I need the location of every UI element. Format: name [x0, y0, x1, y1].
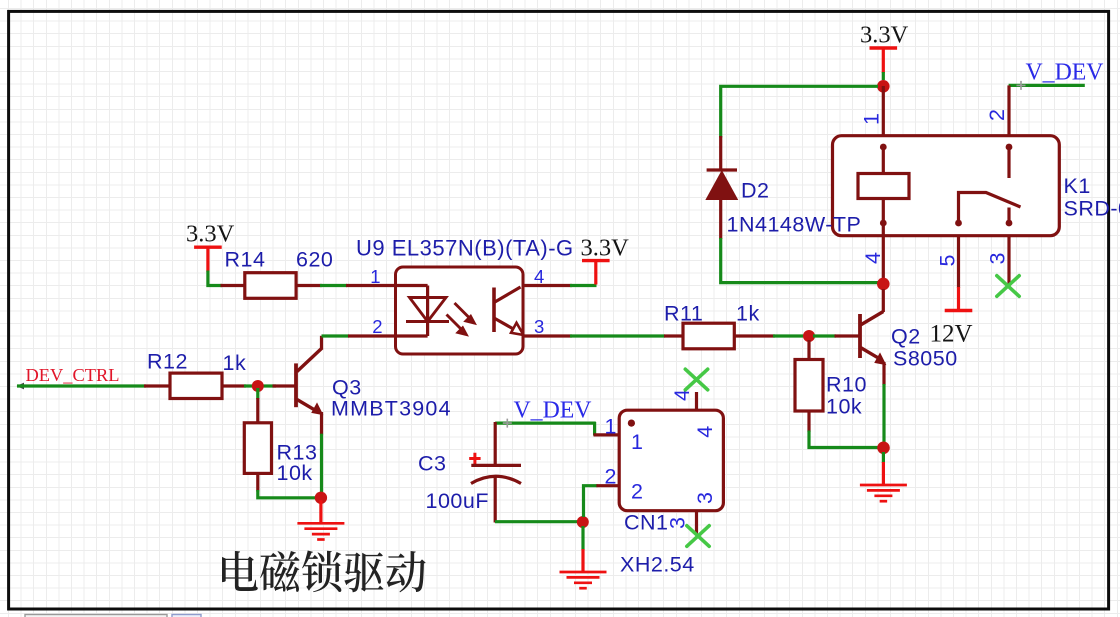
svg-text:2: 2 — [631, 480, 643, 504]
diode D2 1N4148W-TP — [707, 136, 737, 239]
no-connect X CN1 pin3 — [687, 526, 709, 547]
char 锁 — [302, 550, 341, 592]
wire relay pin3 stub — [1007, 236, 1010, 288]
svg-text:1k: 1k — [223, 351, 247, 375]
svg-text:1: 1 — [370, 266, 381, 287]
svg-text:3.3V: 3.3V — [186, 220, 235, 247]
svg-text:1: 1 — [631, 430, 643, 454]
ground under C3 — [581, 526, 584, 550]
wire V_DEV to relay pin2 — [1009, 84, 1085, 87]
power 12V (bar down) — [945, 309, 973, 312]
resistor R14 — [245, 273, 296, 299]
svg-text:R14: R14 — [225, 248, 266, 272]
svg-text:4: 4 — [534, 266, 545, 287]
svg-text:5: 5 — [936, 255, 960, 267]
wire V_DEV to CN1 pin1 — [495, 422, 596, 425]
wire Q3 collector to U9 pin2 — [322, 334, 350, 337]
node DEV_CTRL port arrow — [17, 383, 25, 390]
bottom UI box 1 — [25, 615, 167, 617]
svg-text:4: 4 — [861, 252, 885, 264]
svg-text:R12: R12 — [147, 350, 188, 374]
wire Q2 emitter down — [882, 384, 885, 442]
wire U9 pin3 to R11 — [523, 334, 572, 337]
node junction R12/R13/Q3 — [252, 380, 264, 392]
svg-text:MMBT3904: MMBT3904 — [331, 397, 452, 421]
svg-text:1N4148W-TP: 1N4148W-TP — [727, 213, 862, 237]
node junction R11/R10/Q2 base — [803, 330, 815, 342]
svg-text:3: 3 — [534, 316, 545, 337]
wire R14 left lead — [221, 284, 247, 287]
bottom UI box 2 — [172, 615, 201, 617]
svg-text:V_DEV: V_DEV — [514, 397, 592, 423]
svg-text:12V: 12V — [930, 321, 973, 348]
svg-text:2: 2 — [985, 109, 1009, 121]
svg-text:K1: K1 — [1064, 174, 1091, 198]
wire R13 bottom to ground node — [256, 473, 259, 491]
svg-text:SRD-05VDC-SL-C: SRD-05VDC-SL-C — [1064, 197, 1120, 221]
wire CN1 pin2 — [584, 486, 598, 517]
svg-text:4: 4 — [693, 426, 717, 438]
resistor R10 — [807, 340, 810, 361]
node junction C3/CN1 pin2/GND — [577, 516, 589, 528]
svg-text:10k: 10k — [826, 395, 862, 419]
connector CN1 XH2.54 — [619, 410, 723, 511]
ground under Q2 — [882, 452, 885, 463]
relay K1 — [833, 85, 1060, 235]
no-connect X relay pin3 — [997, 276, 1019, 297]
resistor R11 — [683, 323, 734, 349]
svg-text:R11: R11 — [664, 302, 703, 326]
node junction relay pin4/D2/Q2 collector — [877, 278, 890, 291]
svg-text:10k: 10k — [277, 461, 313, 485]
svg-text:D2: D2 — [741, 179, 769, 203]
CN1 pin4 stub — [695, 392, 698, 411]
svg-text:4: 4 — [670, 389, 694, 401]
wire C3 bottom to ground node — [495, 520, 578, 523]
wire R12 left lead — [144, 384, 170, 387]
wire DEV_CTRL to R12 — [17, 384, 146, 387]
wire junction down to R13 — [256, 388, 259, 399]
wire R11 right lead — [734, 334, 775, 337]
resistor R12 — [170, 373, 222, 398]
wire top to D2 — [721, 86, 878, 137]
wire R12 right lead — [222, 384, 246, 387]
char 动 — [386, 551, 425, 592]
svg-text:620: 620 — [296, 248, 333, 272]
capacitor C3 100uF — [469, 422, 521, 523]
char 驱 — [344, 552, 383, 592]
svg-text:V_DEV: V_DEV — [1026, 59, 1104, 85]
svg-text:1k: 1k — [736, 302, 760, 326]
svg-text:XH2.54: XH2.54 — [620, 553, 695, 577]
CN1 pin3 stub — [695, 511, 698, 536]
wire relay pin4 down — [882, 223, 885, 284]
wire R14 right lead — [296, 284, 322, 287]
wire Q3 emitter down — [320, 434, 323, 492]
svg-text:1: 1 — [860, 113, 884, 125]
svg-text:C3: C3 — [418, 452, 446, 476]
title text 电磁锁驱动 — [222, 550, 426, 592]
char 磁 — [260, 551, 299, 592]
svg-text:S8050: S8050 — [893, 347, 958, 371]
svg-text:R10: R10 — [826, 373, 867, 397]
svg-text:U9 EL357N(B)(TA)-G: U9 EL357N(B)(TA)-G — [356, 236, 574, 261]
transistor Q2 S8050 — [860, 289, 886, 385]
no-connect X CN1 pin4 — [685, 369, 707, 390]
wire D2 bottom to relay pin4 node — [721, 238, 878, 283]
node junction R13/Q3 emitter — [315, 492, 327, 504]
svg-text:Q2: Q2 — [891, 325, 921, 349]
ground under Q3 — [297, 500, 344, 539]
svg-text:2: 2 — [605, 465, 617, 489]
svg-text:DEV_CTRL: DEV_CTRL — [26, 365, 120, 385]
wire relay pin5 to 12V — [957, 236, 960, 288]
char 电 — [222, 551, 258, 591]
node junction 3.3V/relay pin1/D2 — [877, 80, 890, 93]
svg-text:3: 3 — [693, 492, 717, 504]
net anchor marker V_DEV at C3 — [503, 419, 512, 428]
net anchor marker V_DEV top — [1017, 81, 1026, 90]
wire U9 pin4 to 3.3V — [523, 284, 572, 287]
svg-text:CN1: CN1 — [624, 511, 669, 535]
svg-text:100uF: 100uF — [426, 489, 489, 513]
resistor R13 — [244, 423, 271, 474]
svg-text:2: 2 — [372, 316, 383, 337]
wire U9 pin1 stub — [346, 284, 396, 287]
wire R10 bottom to emitter node — [809, 431, 878, 448]
svg-text:3.3V: 3.3V — [860, 22, 909, 49]
node junction Q2 emitter/R10/GND — [877, 442, 890, 455]
wire to node B (base Q3) — [244, 384, 276, 387]
svg-text:3.3V: 3.3V — [581, 235, 630, 262]
svg-text:1: 1 — [605, 415, 617, 439]
CN1 pin1 dot — [628, 420, 635, 427]
svg-text:3: 3 — [986, 253, 1010, 265]
transistor Q3 MMBT3904 — [296, 336, 323, 435]
